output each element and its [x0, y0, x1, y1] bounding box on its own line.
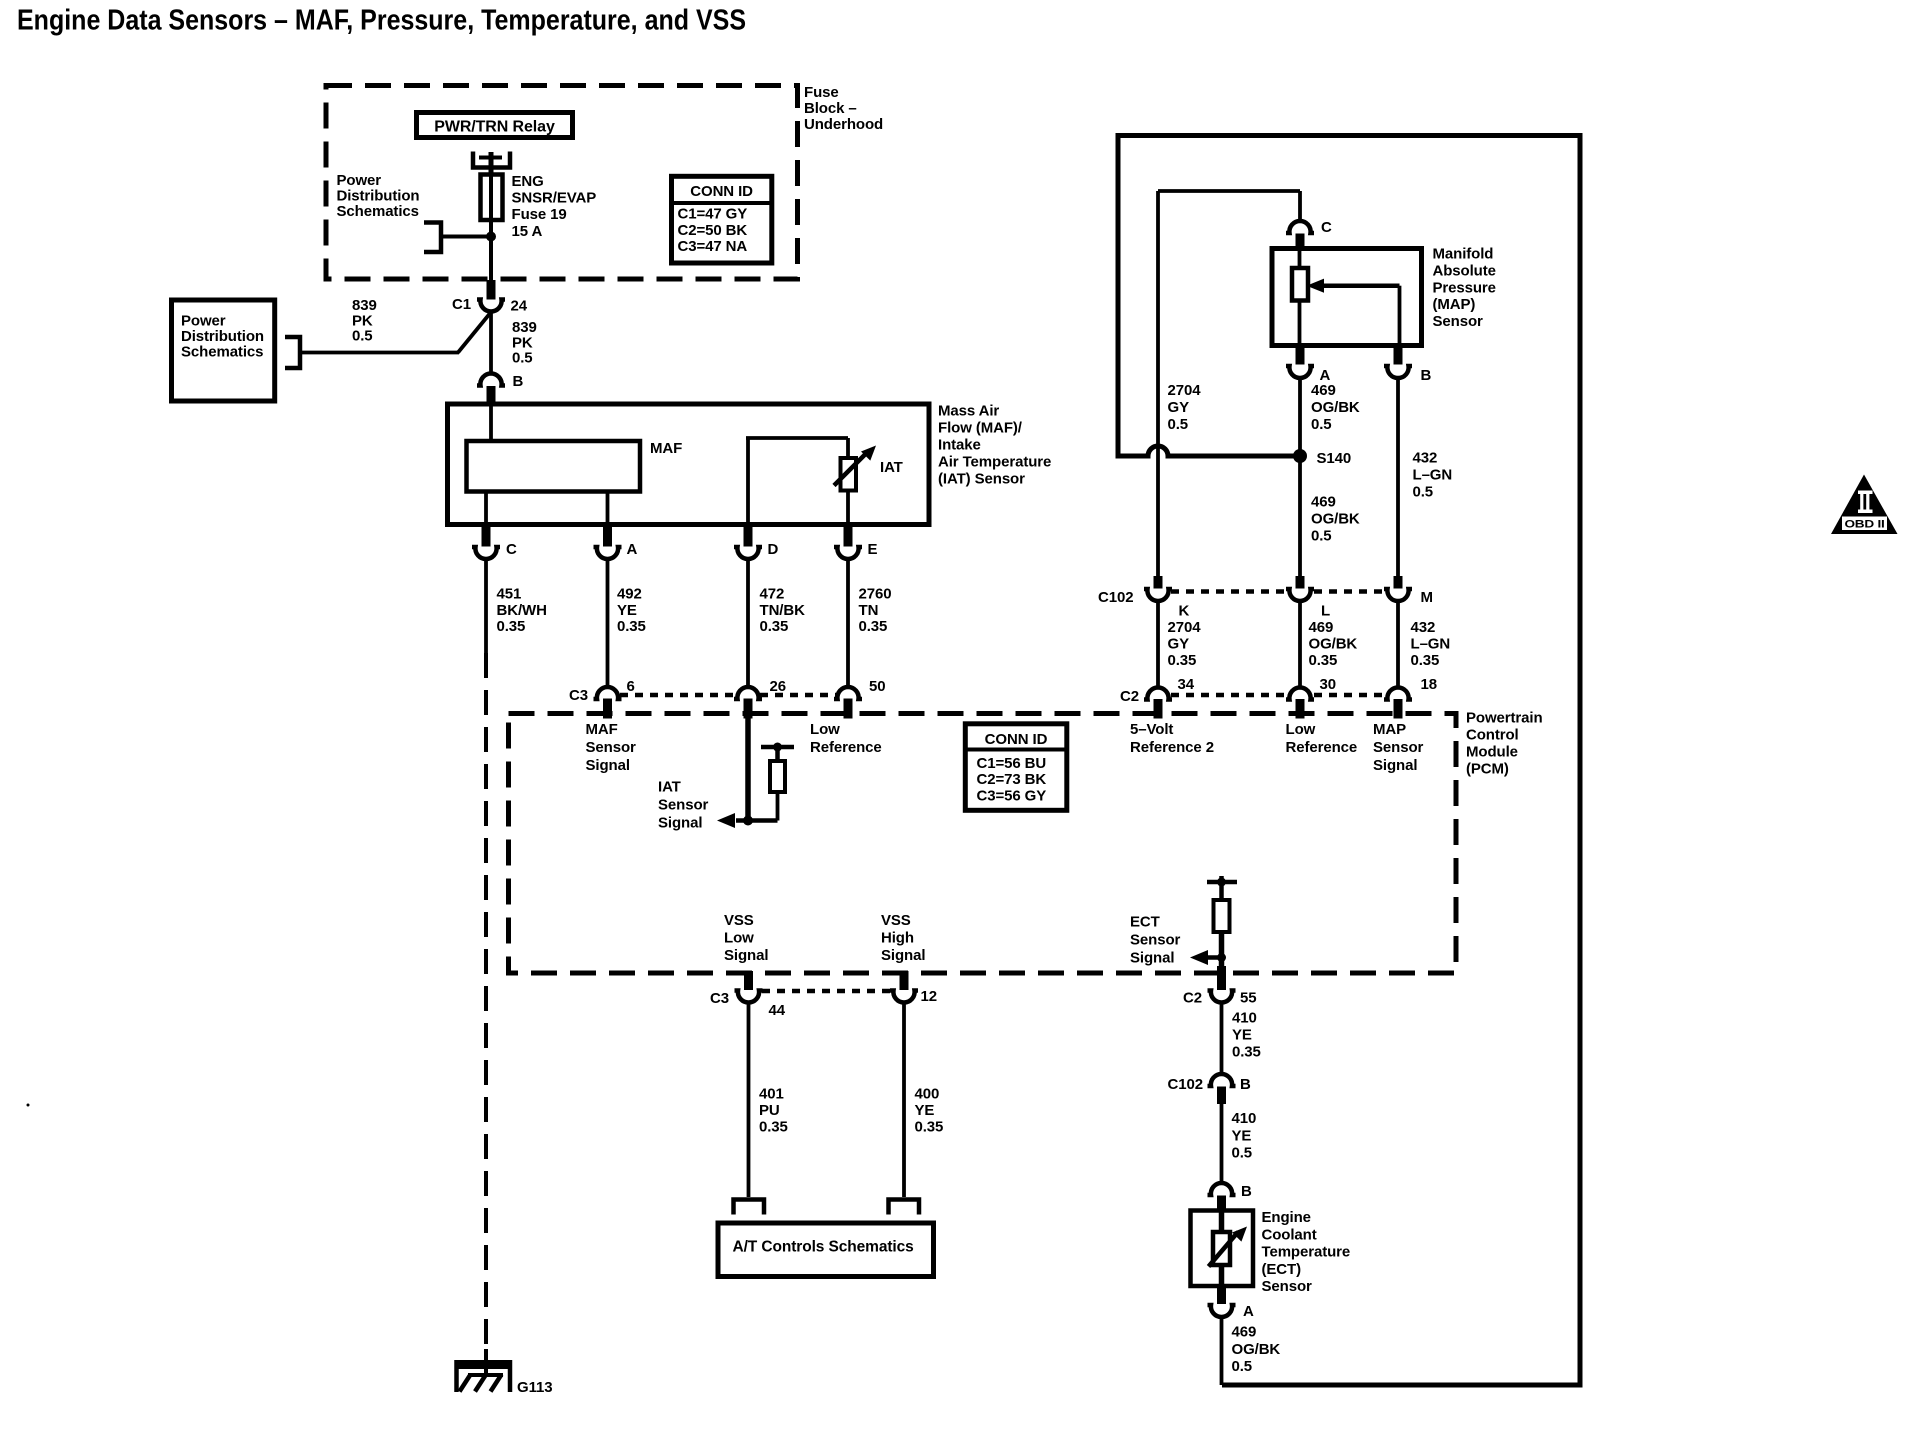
svg-text:E: E — [868, 541, 878, 558]
svg-text:C: C — [1321, 219, 1332, 236]
svg-text:K: K — [1179, 603, 1190, 620]
svg-text:CONN ID: CONN ID — [690, 183, 753, 200]
svg-text:D: D — [768, 541, 779, 558]
svg-text:C1=47 GYC2=50 BKC3=47 NA: C1=47 GYC2=50 BKC3=47 NA — [678, 206, 748, 256]
svg-text:CONN ID: CONN ID — [985, 731, 1048, 748]
svg-text:6: 6 — [627, 678, 635, 695]
svg-text:C1: C1 — [452, 296, 471, 313]
svg-text:44: 44 — [769, 1002, 786, 1019]
svg-text:C3: C3 — [710, 990, 729, 1007]
svg-text:B: B — [1241, 1183, 1252, 1200]
svg-text:50: 50 — [869, 678, 886, 695]
svg-text:IAT: IAT — [880, 459, 903, 476]
svg-text:55: 55 — [1240, 990, 1257, 1007]
svg-text:L: L — [1321, 603, 1330, 620]
svg-text:C102: C102 — [1098, 589, 1133, 606]
svg-text:S140: S140 — [1317, 450, 1352, 467]
svg-text:C2: C2 — [1120, 688, 1139, 705]
svg-text:C2: C2 — [1183, 990, 1202, 1007]
svg-text:B: B — [1421, 367, 1432, 384]
svg-text:18: 18 — [1421, 676, 1438, 693]
svg-text:C1=56 BUC2=73 BKC3=56 GY: C1=56 BUC2=73 BKC3=56 GY — [977, 755, 1047, 804]
svg-text:A: A — [1243, 1303, 1254, 1320]
svg-text:M: M — [1421, 589, 1433, 606]
svg-text:B: B — [1240, 1076, 1251, 1093]
svg-text:A/T Controls Schematics: A/T Controls Schematics — [733, 1239, 914, 1256]
svg-text:OBD II: OBD II — [1845, 519, 1885, 531]
svg-text:B: B — [513, 373, 524, 390]
svg-text:C102: C102 — [1168, 1076, 1203, 1093]
svg-text:Engine Data Sensors – MAF, Pre: Engine Data Sensors – MAF, Pressure, Tem… — [17, 5, 746, 37]
svg-text:30: 30 — [1320, 676, 1337, 693]
svg-text:MAF: MAF — [650, 440, 682, 457]
svg-text:G113: G113 — [517, 1379, 552, 1396]
svg-text:34: 34 — [1178, 676, 1195, 693]
svg-text:26: 26 — [770, 678, 787, 695]
svg-text:PWR/TRN Relay: PWR/TRN Relay — [434, 119, 555, 136]
svg-text:C3: C3 — [569, 687, 588, 704]
svg-text:24: 24 — [511, 298, 528, 315]
svg-text:A: A — [627, 541, 638, 558]
svg-text:12: 12 — [921, 988, 938, 1005]
svg-text:C: C — [506, 541, 517, 558]
